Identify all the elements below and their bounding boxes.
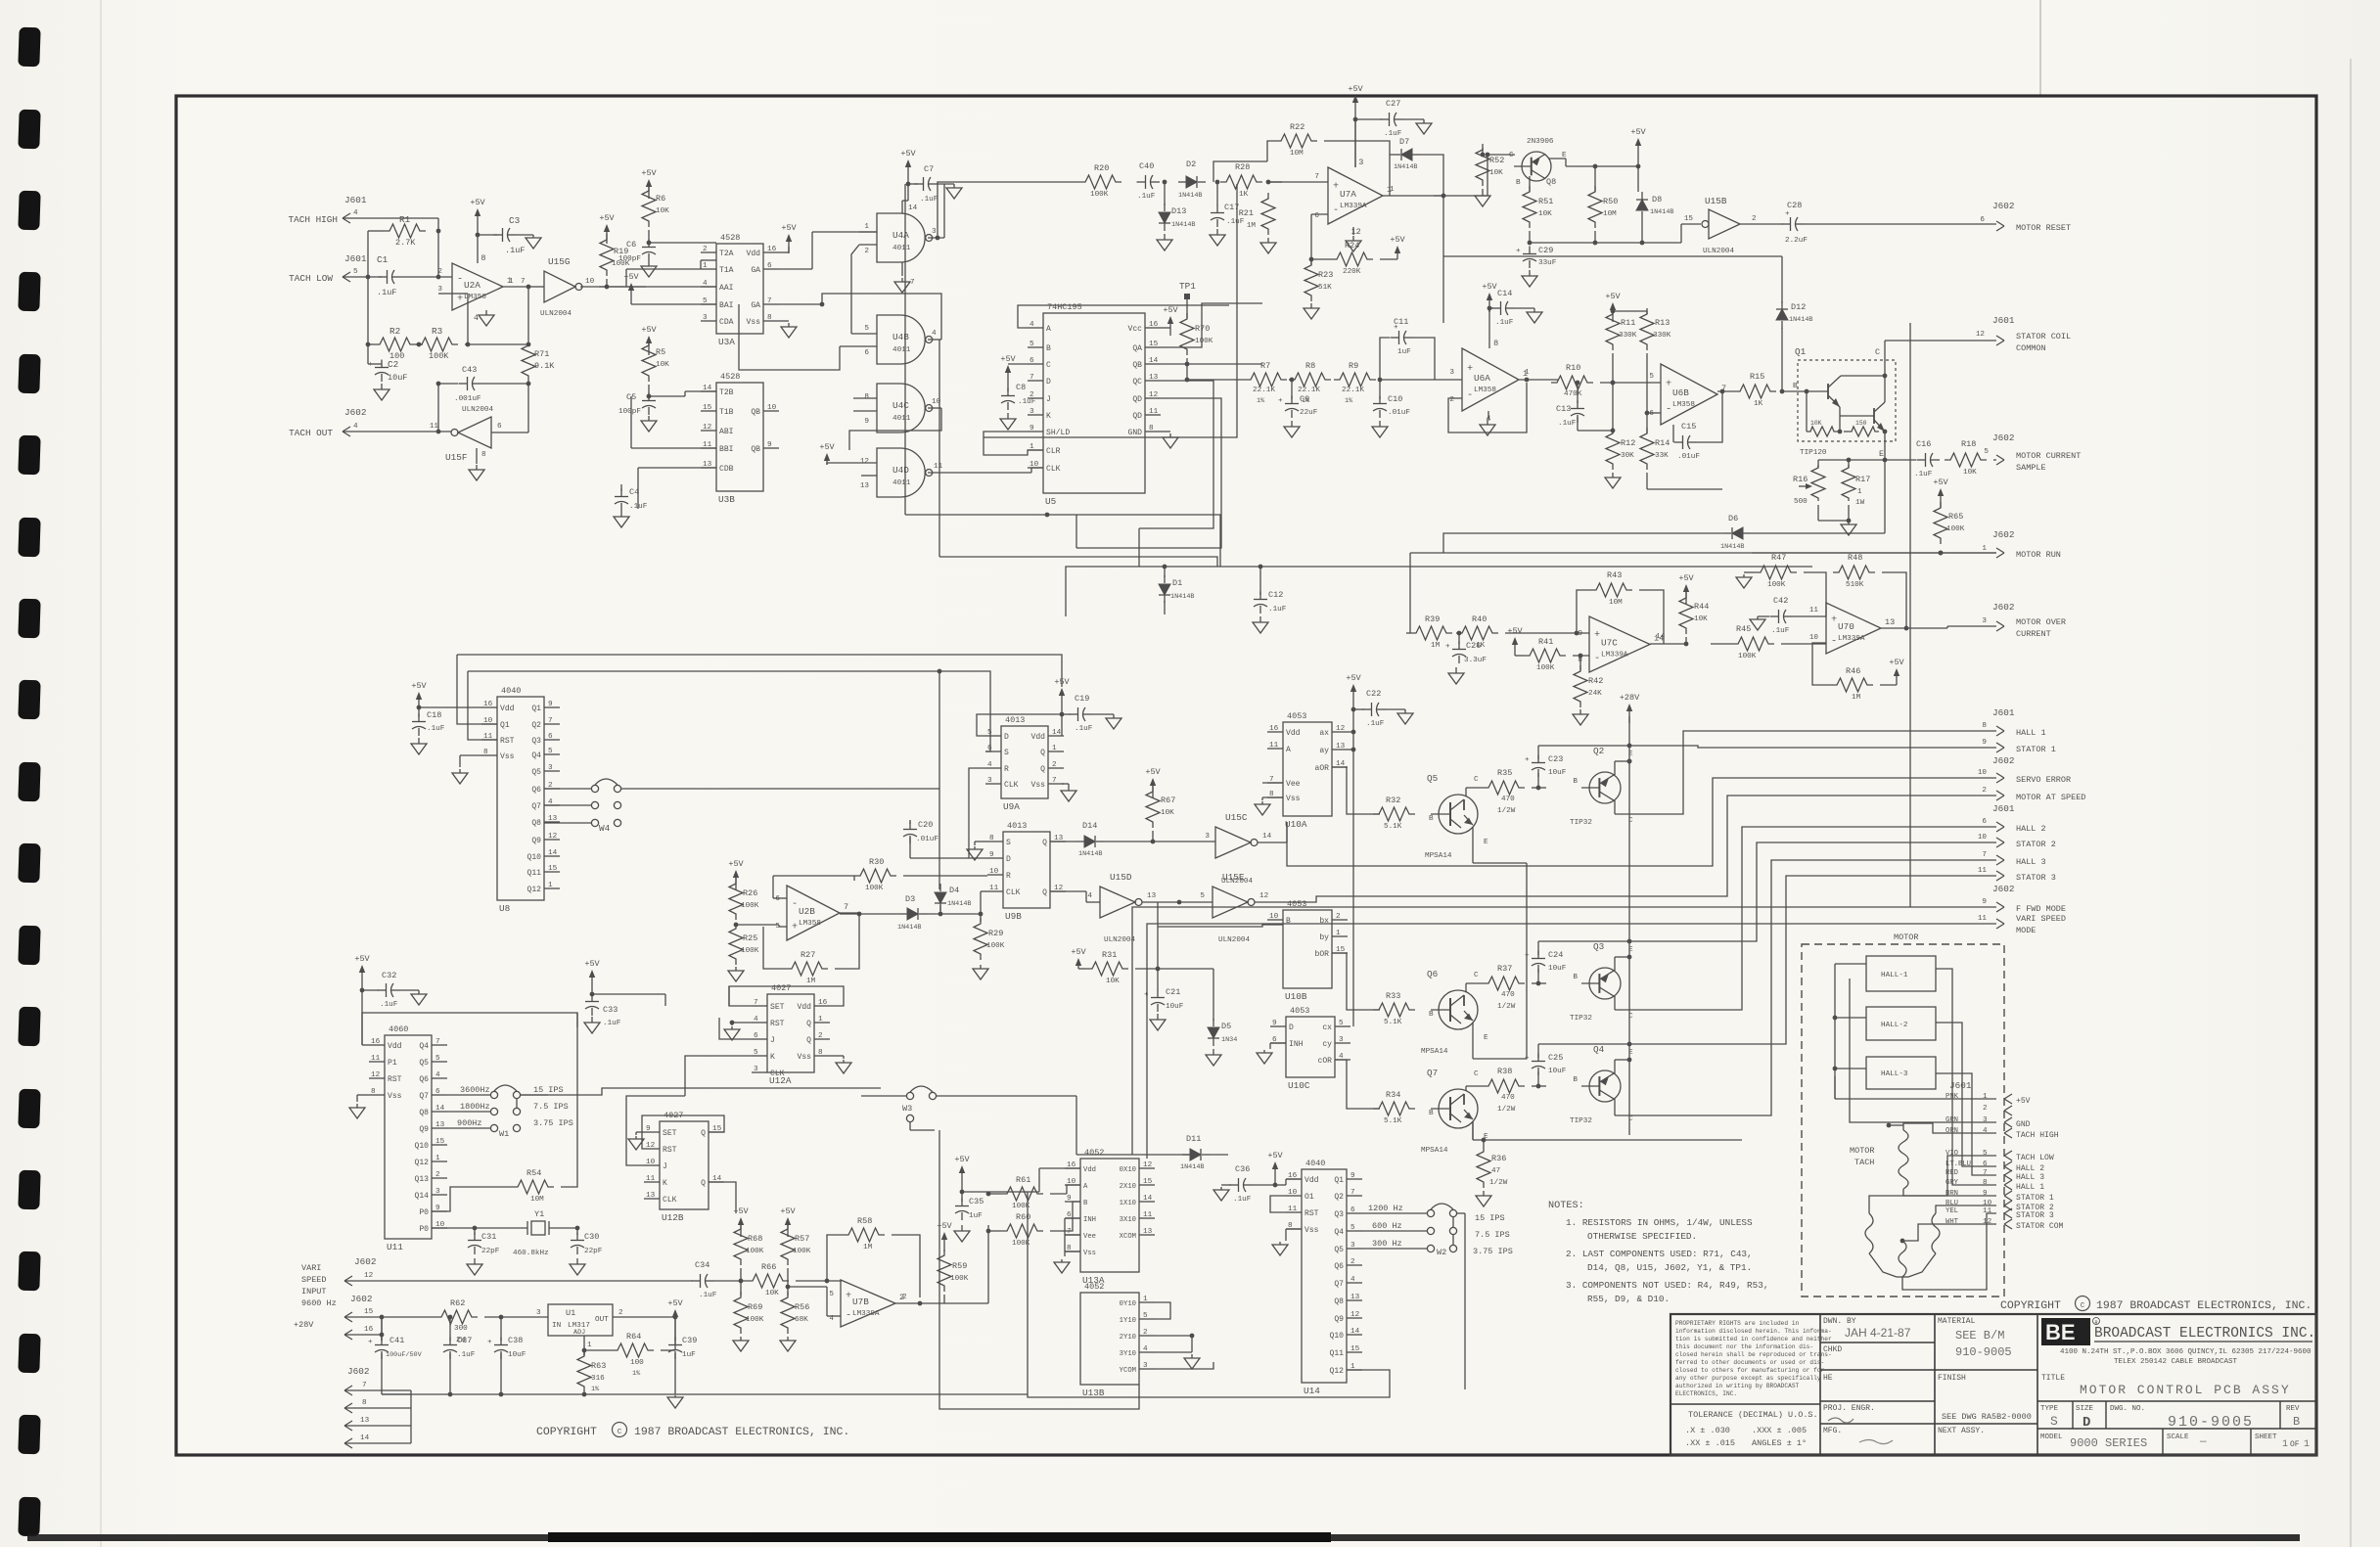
svg-text:W1: W1: [499, 1129, 509, 1139]
svg-text:3.75 IPS: 3.75 IPS: [1473, 1247, 1513, 1256]
svg-text:5: 5: [754, 1049, 758, 1057]
svg-text:D: D: [1046, 378, 1051, 387]
svg-text:ax: ax: [1319, 729, 1329, 738]
svg-text:.001uF: .001uF: [454, 395, 481, 403]
capacitor C29 polarized: [1523, 253, 1536, 255]
IC U10B 4053: [1283, 910, 1332, 988]
svg-text:R27: R27: [801, 950, 815, 960]
resistor R24: [1331, 252, 1373, 266]
capacitor C37: [449, 1317, 451, 1341]
svg-text:+5V: +5V: [781, 223, 797, 233]
tach wire to J601-4 TACH HIGH: [1903, 1123, 1996, 1133]
svg-text:+5V: +5V: [1145, 767, 1161, 777]
stator wire to J601-9 STATOR 1: [1869, 1196, 1996, 1211]
svg-text:1N414B: 1N414B: [897, 924, 921, 932]
svg-text:Q9: Q9: [1334, 1315, 1344, 1324]
diode D3: [907, 908, 918, 920]
svg-text:Q7: Q7: [419, 1092, 429, 1101]
svg-text:100: 100: [630, 1359, 644, 1367]
resistor R17 1 1W: [1842, 465, 1855, 501]
Q1 internal resistor 150: [1848, 427, 1879, 436]
ground U10A Vee: [1261, 801, 1263, 804]
svg-text:SAMPLE: SAMPLE: [2016, 463, 2046, 473]
svg-text:2: 2: [1052, 761, 1057, 769]
svg-text:33uF: 33uF: [1538, 259, 1557, 267]
U11 outer loop wire: [362, 1013, 577, 1045]
IC U13A 4052: [1080, 1159, 1139, 1272]
svg-text:100K: 100K: [1946, 525, 1965, 533]
svg-text:D6: D6: [1728, 514, 1738, 523]
svg-text:12: 12: [1976, 331, 1986, 339]
svg-text:10uF: 10uF: [1548, 769, 1567, 777]
svg-text:Q8: Q8: [531, 819, 541, 828]
capacitor C17: [1216, 182, 1218, 205]
svg-text:R39: R39: [1425, 614, 1440, 624]
svg-text:13: 13: [1149, 374, 1159, 382]
svg-text:Q10: Q10: [1329, 1332, 1344, 1341]
svg-text:Vss: Vss: [797, 1053, 811, 1062]
wire D7 loop: [1390, 155, 1393, 196]
svg-text:U14: U14: [1304, 1386, 1320, 1396]
wire U6A pin8 to C14: [1488, 308, 1490, 348]
svg-text:10: 10: [1067, 1178, 1076, 1186]
bus y569: [939, 557, 1217, 567]
resistor R64: [612, 1343, 654, 1357]
svg-text:6: 6: [1982, 818, 1987, 826]
svg-text:QD: QD: [1132, 395, 1142, 404]
svg-text:D: D: [1004, 733, 1009, 742]
resistor R52: [1476, 144, 1489, 186]
IC U9B 4013: [1003, 832, 1050, 908]
svg-text:13: 13: [860, 482, 870, 490]
svg-text:Q1: Q1: [500, 721, 510, 730]
svg-text:cy: cy: [1322, 1040, 1332, 1049]
diode D7: [1401, 149, 1412, 160]
svg-text:470: 470: [1501, 1094, 1515, 1102]
resistor R10: [1551, 376, 1593, 389]
svg-text:Q8: Q8: [1334, 1297, 1344, 1306]
resistor R8: [1289, 373, 1331, 387]
wire U7C out: [1650, 643, 1686, 645]
wire +5V to U8 Vdd: [419, 706, 481, 708]
resistor R27 feedback: [786, 962, 828, 976]
svg-text:5: 5: [435, 1055, 440, 1063]
svg-text:TITLE: TITLE: [2041, 1374, 2065, 1383]
svg-text:STATOR 3: STATOR 3: [2016, 1211, 2054, 1220]
svg-text:9.1K: 9.1K: [534, 361, 555, 371]
svg-text:4: 4: [829, 1315, 834, 1323]
svg-text:1: 1: [1143, 1296, 1148, 1303]
IC U10C 4053: [1286, 1017, 1335, 1077]
svg-text:D2: D2: [1186, 159, 1196, 169]
svg-text:15: 15: [548, 865, 558, 873]
wire U3A GA to gates: [779, 268, 812, 270]
svg-text:4100 N.24TH ST.,P.O.BOX 3606 Q: 4100 N.24TH ST.,P.O.BOX 3606 QUINCY,IL 6…: [2060, 1348, 2311, 1356]
wire U5 left loop: [1018, 305, 1229, 328]
svg-text:3. COMPONENTS NOT USED: R4, R4: 3. COMPONENTS NOT USED: R4, R49, R53,: [1566, 1280, 1768, 1291]
svg-text:1: 1: [2304, 1439, 2310, 1450]
svg-text:R15: R15: [1750, 372, 1764, 382]
wire U9A Vdd to +5V: [1061, 714, 1063, 736]
svg-text:11: 11: [1143, 1211, 1153, 1219]
svg-text:.1uF: .1uF: [1268, 606, 1287, 614]
hall gnd bus to J601-3 GND: [1850, 978, 1996, 1122]
svg-text:4: 4: [703, 280, 708, 288]
wire W1 out: [516, 1099, 518, 1108]
svg-text:HALL 1: HALL 1: [2016, 728, 2046, 738]
svg-text:.1uF: .1uF: [1771, 627, 1790, 635]
U14 long output wires: [1028, 1192, 1390, 1397]
svg-text:R: R: [1004, 765, 1009, 774]
svg-text:R43: R43: [1607, 570, 1622, 580]
svg-text:4: 4: [353, 209, 358, 217]
svg-text:S: S: [2050, 1414, 2058, 1429]
svg-text:closed herein shall be reprodu: closed herein shall be reproduced or tra…: [1675, 1351, 1832, 1358]
svg-text:22.1K: 22.1K: [1253, 387, 1275, 394]
svg-text:Q: Q: [1042, 839, 1047, 847]
svg-text:2: 2: [818, 1032, 823, 1040]
svg-text:11: 11: [371, 1055, 381, 1063]
svg-text:15: 15: [1143, 1178, 1153, 1186]
svg-text:C9: C9: [1300, 394, 1309, 404]
svg-text:INH: INH: [1083, 1216, 1096, 1224]
tach wire to J601-5 TACH LOW: [1903, 1156, 1996, 1196]
svg-text:1: 1: [509, 278, 514, 286]
svg-text:15: 15: [435, 1138, 445, 1146]
svg-text:9: 9: [1272, 1020, 1277, 1027]
svg-text:Q8: Q8: [1546, 177, 1556, 187]
NAND gate U4D 4011: [877, 448, 925, 497]
svg-text:INH: INH: [1289, 1040, 1304, 1049]
svg-text:R59: R59: [952, 1261, 967, 1271]
bottom scan black strip: [27, 1534, 2300, 1541]
svg-text:14: 14: [1143, 1195, 1153, 1203]
svg-text:bOR: bOR: [1314, 950, 1329, 959]
wire U7B out to U13 region: [944, 1302, 988, 1304]
svg-text:+5V: +5V: [1346, 673, 1361, 683]
resistor R66: [747, 1274, 789, 1288]
page edge shadow lines: [100, 0, 102, 1547]
svg-text:1N414B: 1N414B: [1720, 543, 1744, 551]
svg-text:5: 5: [864, 325, 869, 333]
svg-text:14: 14: [1052, 729, 1062, 737]
svg-text:Q: Q: [701, 1129, 706, 1138]
svg-text:R34: R34: [1386, 1090, 1400, 1100]
svg-text:R40: R40: [1472, 614, 1487, 624]
ground U9B S input: [974, 846, 976, 849]
capacitor C28 polarized: [1740, 223, 1783, 225]
wire Q1 emitter down: [1884, 460, 1886, 533]
svg-text:E: E: [1484, 839, 1488, 846]
svg-text:D14, Q8, U15, J602, Y1, & TP1.: D14, Q8, U15, J602, Y1, & TP1.: [1587, 1262, 1752, 1273]
svg-text:3: 3: [703, 314, 708, 322]
svg-text:1uF: 1uF: [682, 1351, 696, 1359]
svg-text:B: B: [1046, 344, 1051, 353]
svg-text:+: +: [1525, 756, 1530, 764]
svg-text:by: by: [1319, 933, 1329, 942]
svg-text:Q11: Q11: [1329, 1349, 1344, 1358]
svg-text:Q4: Q4: [419, 1042, 429, 1051]
svg-text:R2: R2: [389, 326, 400, 337]
svg-text:2: 2: [864, 248, 869, 255]
svg-text:R69: R69: [748, 1302, 762, 1312]
wire Q7 emitter to R36: [1472, 1121, 1474, 1140]
resistor R15: [1734, 385, 1776, 398]
svg-text:470: 470: [1501, 796, 1515, 803]
svg-text:2: 2: [435, 1171, 440, 1179]
svg-text:LM358: LM358: [1474, 387, 1496, 394]
svg-text:C31: C31: [481, 1232, 496, 1242]
svg-text:GA: GA: [751, 266, 760, 275]
svg-text:14: 14: [1350, 1328, 1360, 1336]
capacitor C42: [1778, 610, 1780, 623]
svg-text:ULN2004: ULN2004: [1104, 936, 1136, 944]
U4B feedback wires: [822, 294, 941, 340]
svg-text:R17: R17: [1855, 475, 1870, 484]
svg-text:1: 1: [1052, 745, 1057, 752]
svg-text:HALL 3: HALL 3: [2016, 1173, 2044, 1182]
svg-text:Vdd: Vdd: [1083, 1166, 1096, 1174]
long vertical bus x960 to D4: [938, 671, 940, 889]
svg-text:.1uF: .1uF: [1914, 471, 1933, 478]
svg-text:-: -: [1666, 405, 1671, 416]
svg-text:Q1: Q1: [1795, 346, 1807, 357]
svg-text:BRN: BRN: [1945, 1190, 1958, 1198]
svg-text:HALL 2: HALL 2: [2016, 1164, 2044, 1173]
svg-text:Vss: Vss: [500, 752, 515, 761]
ground C7: [938, 183, 954, 185]
svg-text:.1uF: .1uF: [603, 1020, 621, 1027]
svg-text:HALL 3: HALL 3: [2016, 857, 2046, 867]
capacitor C2 polarized: [367, 344, 369, 364]
svg-text:14: 14: [1656, 633, 1666, 641]
wire C23 top rail: [1538, 745, 1660, 747]
svg-text:MFG.: MFG.: [1823, 1427, 1842, 1435]
svg-text:+: +: [1516, 248, 1521, 255]
capacitor C31: [474, 1228, 476, 1235]
wire Q8 base row: [1487, 154, 1515, 156]
svg-text:R55, D9, & D10.: R55, D9, & D10.: [1587, 1294, 1670, 1304]
wire F FWD MODE long bus: [1132, 907, 1996, 1155]
svg-text:4013: 4013: [1005, 715, 1025, 725]
resistor R47: [1755, 566, 1797, 579]
diode D12: [1781, 328, 1783, 391]
svg-text:R8: R8: [1305, 361, 1315, 371]
svg-text:4040: 4040: [501, 686, 521, 696]
svg-text:MOTOR RUN: MOTOR RUN: [2016, 550, 2061, 560]
svg-text:R18: R18: [1961, 439, 1976, 449]
Q1 internal transistor 1: [1827, 384, 1829, 399]
svg-text:9: 9: [548, 701, 553, 708]
svg-text:U7C: U7C: [1601, 638, 1618, 649]
svg-text:100K: 100K: [1090, 191, 1109, 199]
transistor Q1 TIP120 module: [1798, 360, 1896, 441]
svg-text:Q7: Q7: [1334, 1280, 1344, 1289]
svg-text:TACH OUT: TACH OUT: [289, 428, 333, 438]
svg-text:3: 3: [1350, 1242, 1355, 1250]
svg-text:6: 6: [435, 1088, 440, 1096]
svg-text:1%: 1%: [1257, 397, 1265, 405]
wire Q4 collector out: [1614, 1099, 1616, 1115]
svg-text:C: C: [1628, 1115, 1633, 1123]
svg-text:C30: C30: [584, 1232, 599, 1242]
op-amp U6A LM358: [1462, 348, 1519, 411]
svg-text:8: 8: [864, 393, 869, 401]
svg-text:10K: 10K: [765, 1290, 779, 1297]
diode D11: [1076, 1154, 1189, 1156]
svg-text:1: 1: [1525, 369, 1530, 377]
wire Q5 collector: [1465, 788, 1467, 796]
wire Q2 emitter to +28V rail: [1614, 761, 1616, 775]
wire U7D out: [1881, 627, 1947, 629]
svg-text:+5V: +5V: [728, 859, 744, 869]
svg-text:Vdd: Vdd: [1286, 729, 1301, 738]
svg-text:R47: R47: [1771, 553, 1786, 563]
svg-text:4011: 4011: [892, 346, 911, 354]
svg-text:SEE DWG RA5B2-0000: SEE DWG RA5B2-0000: [1942, 1412, 2032, 1422]
capacitor C39: [661, 1349, 675, 1351]
svg-text:4053: 4053: [1290, 1006, 1309, 1016]
svg-text:6: 6: [1649, 410, 1654, 418]
+28V rail vertical: [1628, 716, 1630, 1135]
svg-text:300: 300: [454, 1325, 468, 1333]
main bus y579: [1066, 567, 1812, 616]
capacitor C36: [1220, 1187, 1222, 1190]
resistor R58: [843, 1228, 885, 1242]
svg-text:J602: J602: [347, 1366, 369, 1377]
svg-text:B: B: [1429, 815, 1434, 823]
svg-text:CURRENT: CURRENT: [2016, 629, 2051, 639]
wire top bus down to U5 SH/LD: [984, 184, 1237, 437]
ground U7A pin12: [1352, 236, 1354, 241]
staircase bus wires to connectors: [1660, 731, 1996, 814]
svg-text:C11: C11: [1394, 317, 1408, 327]
resistor R25: [729, 923, 743, 965]
svg-text:Q9: Q9: [419, 1125, 429, 1134]
svg-text:RST: RST: [500, 737, 515, 746]
svg-text:12: 12: [1336, 725, 1346, 733]
wire R10 to U6B +input: [1600, 382, 1661, 384]
svg-text:Q: Q: [806, 1020, 811, 1028]
svg-text:any other purpose except as sp: any other purpose except as specifically: [1675, 1375, 1821, 1382]
svg-text:4: 4: [435, 1071, 440, 1079]
wire U10C cOR to R34: [1335, 1060, 1380, 1109]
svg-text:9: 9: [767, 441, 772, 449]
svg-text:SHEET: SHEET: [2255, 1433, 2277, 1441]
svg-text:11: 11: [646, 1175, 656, 1183]
svg-text:+5V: +5V: [411, 681, 427, 691]
svg-text:.1uF: .1uF: [1137, 193, 1156, 201]
wire W3 row: [937, 1095, 1076, 1097]
svg-text:Vdd: Vdd: [746, 250, 760, 258]
wire R3 up to U2A pin3 node: [467, 294, 469, 344]
svg-text:C13: C13: [1556, 404, 1571, 414]
svg-text:HE: HE: [1823, 1374, 1833, 1383]
svg-text:3: 3: [1449, 369, 1454, 377]
svg-text:LM339A: LM339A: [1601, 652, 1628, 660]
svg-text:R23: R23: [1318, 270, 1333, 280]
capacitor C13: [1576, 381, 1580, 386]
svg-text:8: 8: [481, 451, 486, 459]
svg-text:REV: REV: [2286, 1405, 2300, 1413]
stator wire to J601-12 STATOR COM: [1902, 1224, 1996, 1241]
wire W2 down: [1457, 1212, 1465, 1214]
svg-text:4: 4: [1087, 892, 1092, 900]
svg-text:C7: C7: [924, 164, 934, 174]
wire QB to R70 node: [1161, 363, 1262, 365]
svg-text:10K: 10K: [656, 361, 669, 369]
svg-text:30K: 30K: [1621, 452, 1634, 460]
resistor R41: [1524, 649, 1566, 662]
svg-text:LT.BLU: LT.BLU: [1945, 1160, 1971, 1168]
resistor R28: [1220, 175, 1262, 189]
svg-text:14: 14: [1149, 357, 1159, 365]
svg-text:2: 2: [1752, 215, 1757, 223]
wire R7 left: [1187, 379, 1245, 381]
svg-text:T1B: T1B: [719, 408, 734, 417]
svg-text:3600Hz: 3600Hz: [460, 1085, 490, 1095]
svg-text:D1: D1: [1172, 578, 1182, 588]
svg-text:100K: 100K: [865, 885, 884, 892]
svg-text:10: 10: [1288, 1189, 1298, 1197]
svg-text:100pF: 100pF: [618, 255, 641, 263]
svg-text:R25: R25: [743, 933, 757, 943]
svg-text:D: D: [2082, 1415, 2090, 1431]
wire C6 node to U3A T2A: [649, 242, 716, 244]
svg-text:MOTOR CONTROL PCB ASSY: MOTOR CONTROL PCB ASSY: [2080, 1383, 2291, 1397]
svg-text:1N414B: 1N414B: [1650, 208, 1673, 216]
wire +5V hall supply row: [1834, 1076, 1836, 1099]
svg-text:ULN2004: ULN2004: [1703, 248, 1735, 255]
svg-text:1W: 1W: [1855, 499, 1865, 507]
wire U15C out to U10A: [1286, 822, 1288, 842]
svg-text:TIP32: TIP32: [1570, 819, 1592, 827]
wire +5V bus to U12A: [592, 993, 665, 995]
svg-text:10: 10: [767, 404, 777, 412]
svg-text:11: 11: [1978, 915, 1988, 923]
capacitor C23 polarized: [1532, 787, 1546, 789]
svg-text:R60: R60: [1016, 1212, 1030, 1222]
svg-text:SERVO ERROR: SERVO ERROR: [2016, 775, 2071, 785]
svg-text:Q13: Q13: [414, 1175, 429, 1184]
svg-text:C4: C4: [629, 487, 639, 497]
svg-text:MODEL: MODEL: [2040, 1433, 2063, 1441]
svg-text:R37: R37: [1497, 964, 1512, 974]
U4B out: [928, 339, 941, 341]
wire R36 node row: [1571, 1139, 1742, 1141]
svg-text:5: 5: [548, 748, 553, 755]
svg-text:Q3: Q3: [1593, 941, 1605, 952]
svg-text:8: 8: [362, 1399, 367, 1407]
svg-text:11: 11: [934, 463, 943, 471]
svg-text:47: 47: [1491, 1167, 1500, 1175]
svg-text:7.5 IPS: 7.5 IPS: [533, 1102, 569, 1112]
svg-text:3: 3: [1339, 1036, 1344, 1044]
resistor R62: [435, 1310, 478, 1324]
svg-text:1%: 1%: [591, 1386, 600, 1393]
jumper W4: [544, 788, 591, 790]
capacitor C21 polarized: [1157, 969, 1159, 990]
svg-text:10K: 10K: [1161, 809, 1174, 817]
svg-text:+5V: +5V: [354, 954, 370, 964]
svg-text:1M: 1M: [1247, 222, 1257, 230]
wire U2B out: [840, 913, 899, 915]
resistor R63: [577, 1350, 591, 1392]
svg-text:1N34: 1N34: [1221, 1036, 1237, 1044]
resistor R43: [1590, 583, 1632, 597]
svg-text:3: 3: [1983, 1116, 1988, 1124]
resistor R31: [1086, 962, 1128, 976]
